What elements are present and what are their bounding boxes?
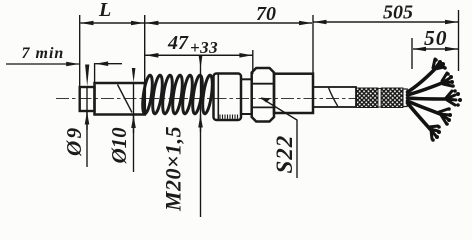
leader ø10 line: [133, 83, 135, 172]
spring coil 2: [151, 75, 164, 115]
leader S22 arrowhead: [261, 98, 271, 103]
svg-text:7 min: 7 min: [22, 45, 65, 62]
wire 2: [408, 72, 455, 95]
wire 4: [408, 101, 453, 126]
extension line tip end: [79, 15, 81, 87]
sleeve tube: [313, 87, 356, 107]
leader M20 line: [200, 56, 202, 217]
spring coil 4: [171, 75, 184, 115]
dimension 505: [314, 21, 459, 23]
extension line cable 50 left: [411, 38, 413, 69]
sleeve diagonal mark: [329, 88, 338, 107]
leader ø9 upper arrow: [85, 65, 89, 87]
svg-text:70: 70: [256, 3, 276, 25]
dimension L: [81, 22, 145, 24]
dimension 50: [413, 48, 458, 50]
dimension 70: [145, 22, 312, 24]
dimension 7 min arrow right: [95, 63, 122, 65]
leader M20 lower arrow: [200, 115, 202, 133]
bushing thread ticks: [220, 115, 238, 119]
cable clamp ring: [403, 89, 407, 107]
spring coil 1: [141, 75, 154, 115]
braid clamp gap: [378, 89, 381, 108]
nut chamfer line top: [252, 83, 274, 85]
leader M20 upper arrow: [199, 56, 203, 69]
leader S22: [261, 98, 297, 178]
wire 3 (middle): [408, 89, 463, 107]
neck collar: [241, 79, 252, 114]
leader ø10 upper arrow: [132, 68, 136, 83]
svg-text:Ø10: Ø10: [107, 127, 131, 165]
leader ø9 lower arrow: [86, 112, 88, 131]
leader ø9 line: [86, 87, 88, 167]
tube diagonal mark: [118, 85, 133, 113]
extension line nut face: [252, 50, 254, 74]
wire 5 (bottom): [408, 103, 442, 142]
extension line cable end: [458, 10, 460, 71]
dimension 47+33: [145, 54, 252, 56]
extension line body end: [312, 15, 314, 73]
spring coil 5: [181, 75, 194, 115]
spring coil 6: [191, 75, 204, 115]
wire 1 (top): [408, 58, 447, 92]
dimension 7 min arrow left: [6, 63, 79, 65]
probe tip (ø9 cap): [80, 87, 95, 111]
bushing left face line: [217, 75, 219, 120]
svg-text:L: L: [98, 0, 111, 21]
svg-text:Ø9: Ø9: [62, 125, 86, 157]
body cylinder: [274, 74, 313, 113]
svg-text:M20×1,5: M20×1,5: [161, 126, 186, 212]
leader ø10 lower arrow: [133, 115, 135, 133]
nut chamfer line bottom: [252, 106, 274, 108]
centerline: [56, 98, 358, 100]
extension line spring start: [144, 15, 146, 115]
spring coil 3: [161, 75, 174, 115]
spring coil 7: [201, 75, 214, 115]
hex nut S22: [252, 68, 274, 122]
svg-text:505: 505: [383, 2, 413, 24]
thread bushing: [214, 74, 242, 121]
braid section 2: [381, 88, 403, 108]
svg-text:47: 47: [167, 32, 189, 54]
svg-text:+33: +33: [190, 38, 218, 57]
tube ø10: [95, 83, 145, 115]
extension line step: [94, 63, 96, 83]
braid section 1: [357, 88, 379, 108]
svg-text:50: 50: [424, 26, 448, 50]
svg-text:S22: S22: [272, 135, 297, 174]
